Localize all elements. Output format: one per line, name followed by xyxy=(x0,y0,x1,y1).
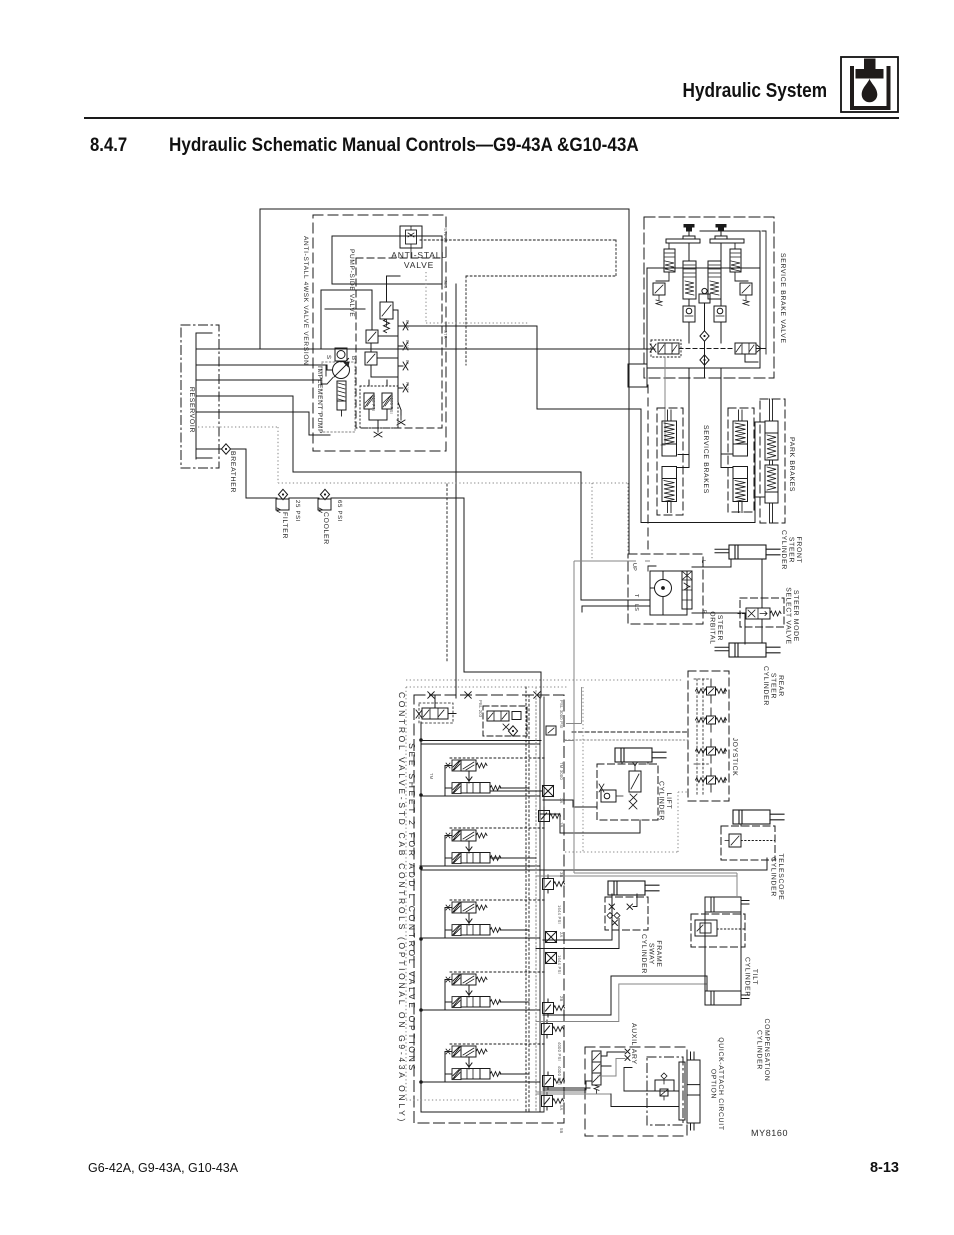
svg-text:TILTCYLINDER: TILTCYLINDER xyxy=(744,957,759,997)
svg-text:UP: UP xyxy=(631,563,637,571)
svg-text:PUMP-SIDE VALVE: PUMP-SIDE VALVE xyxy=(348,249,355,317)
svg-text:LS: LS xyxy=(633,604,639,611)
svg-text:4000 PSI: 4000 PSI xyxy=(557,1066,562,1085)
svg-text:LIFTCYLINDER: LIFTCYLINDER xyxy=(658,781,673,821)
svg-text:25 PSI: 25 PSI xyxy=(294,500,301,522)
svg-text:1644 PSI: 1644 PSI xyxy=(557,955,562,974)
svg-text:ANTI-STALL: ANTI-STALL xyxy=(391,250,447,260)
svg-text:REARSTEERCYLINDER: REARSTEERCYLINDER xyxy=(762,666,784,706)
svg-text:QUICK-ATTACH CIRCUITOPTION: QUICK-ATTACH CIRCUITOPTION xyxy=(710,1037,725,1130)
svg-text:L: L xyxy=(700,560,706,563)
svg-text:BREATHER: BREATHER xyxy=(229,451,236,493)
svg-text:TELESCOPECYLINDER: TELESCOPECYLINDER xyxy=(770,853,785,900)
svg-text:300 PSI: 300 PSI xyxy=(371,395,376,411)
svg-text:BLV: BLV xyxy=(405,340,410,348)
svg-text:3B: 3B xyxy=(559,872,564,878)
svg-text:PSL 3000 PSI: PSL 3000 PSI xyxy=(559,700,564,729)
svg-text:4000 PSI: 4000 PSI xyxy=(557,1042,562,1061)
svg-text:1644 PSI: 1644 PSI xyxy=(557,905,562,924)
svg-text:SERVICE BRAKE VALVE: SERVICE BRAKE VALVE xyxy=(779,253,786,344)
svg-text:BL: BL xyxy=(405,360,410,366)
svg-text:IMPLEMENT PUMP: IMPLEMENT PUMP xyxy=(316,366,323,434)
svg-text:STEERORBITAL: STEERORBITAL xyxy=(709,611,724,644)
svg-text:S: S xyxy=(325,355,332,360)
svg-text:TM: TM xyxy=(429,773,434,780)
svg-text:2A: 2A xyxy=(559,932,564,938)
svg-text:2B: 2B xyxy=(559,996,564,1002)
svg-text:FILTER: FILTER xyxy=(281,512,288,539)
svg-text:65 PSI: 65 PSI xyxy=(336,500,343,522)
svg-text:JOYSTICK: JOYSTICK xyxy=(731,738,738,777)
svg-text:MY8160: MY8160 xyxy=(751,1128,788,1138)
svg-text:AUXILIARY: AUXILIARY xyxy=(630,1023,637,1065)
svg-text:ANTI-STALL 4WSK VALVE VERSION: ANTI-STALL 4WSK VALVE VERSION xyxy=(302,236,309,366)
svg-text:CONTROL VALVE-STD CAB CONTROLS: CONTROL VALVE-STD CAB CONTROLS (OPTIONAL… xyxy=(397,692,407,1124)
svg-text:SERVICE BRAKES: SERVICE BRAKES xyxy=(702,425,709,494)
svg-text:PARK BRAKES: PARK BRAKES xyxy=(788,437,795,492)
svg-text:RLV: RLV xyxy=(405,382,410,390)
svg-text:TM 3000: TM 3000 xyxy=(559,762,564,780)
svg-text:SLS: SLS xyxy=(443,280,448,289)
svg-text:FRONTSTEERCYLINDER: FRONTSTEERCYLINDER xyxy=(780,530,802,570)
svg-text:BLS: BLS xyxy=(405,320,410,329)
svg-text:3A: 3A xyxy=(559,798,564,804)
svg-text:STL 13: STL 13 xyxy=(443,228,448,243)
svg-text:VALVE: VALVE xyxy=(404,260,434,270)
svg-text:STEER MODESELECT VALVE: STEER MODESELECT VALVE xyxy=(785,587,800,645)
svg-text:4000 PSI: 4000 PSI xyxy=(389,395,394,414)
svg-text:T: T xyxy=(633,594,639,598)
svg-text:COOLER: COOLER xyxy=(322,512,329,545)
svg-text:SEE SHEET 2 FOR ADD'L CONTROL: SEE SHEET 2 FOR ADD'L CONTROL VALVE OPTI… xyxy=(407,743,417,1073)
svg-text:COMPENSATIONCYLINDER: COMPENSATIONCYLINDER xyxy=(756,1018,771,1081)
svg-text:PBL 203: PBL 203 xyxy=(478,700,483,718)
svg-text:B: B xyxy=(350,356,357,361)
svg-text:FRAMESWAYCYLINDER: FRAMESWAYCYLINDER xyxy=(640,934,662,974)
svg-text:R: R xyxy=(701,610,707,614)
svg-text:RESERVOIR: RESERVOIR xyxy=(188,387,195,433)
svg-text:5A: 5A xyxy=(559,1105,564,1111)
svg-text:5B: 5B xyxy=(559,1128,564,1134)
svg-text:STR: STR xyxy=(443,330,448,339)
svg-text:1B: 1B xyxy=(559,822,564,828)
